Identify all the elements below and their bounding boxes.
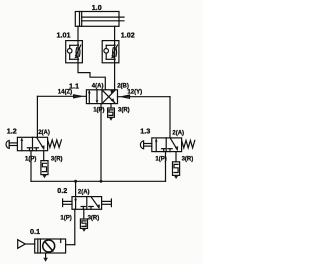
- svg-text:0.2: 0.2: [57, 186, 67, 195]
- svg-text:1(P): 1(P): [155, 156, 166, 162]
- svg-text:0.1: 0.1: [30, 227, 40, 236]
- svg-text:2(A): 2(A): [78, 190, 90, 196]
- svg-text:1(P): 1(P): [60, 216, 71, 222]
- svg-text:1(P): 1(P): [25, 157, 36, 163]
- svg-text:1.2: 1.2: [7, 126, 17, 135]
- svg-text:3(R): 3(R): [182, 156, 194, 162]
- svg-text:1(P): 1(P): [93, 107, 104, 113]
- svg-text:1.0: 1.0: [92, 3, 102, 12]
- svg-text:1.01: 1.01: [57, 31, 71, 40]
- svg-text:2(B): 2(B): [117, 84, 129, 90]
- svg-text:1.02: 1.02: [121, 31, 135, 40]
- svg-text:12(Y): 12(Y): [127, 89, 142, 95]
- svg-text:2(A): 2(A): [38, 130, 50, 136]
- svg-text:4(A): 4(A): [92, 84, 104, 90]
- svg-text:3(R): 3(R): [51, 157, 63, 163]
- svg-text:3(R): 3(R): [88, 216, 100, 222]
- svg-text:2(A): 2(A): [172, 131, 184, 137]
- svg-text:3(R): 3(R): [118, 107, 130, 113]
- svg-text:1.3: 1.3: [140, 126, 150, 135]
- svg-text:14(Z): 14(Z): [58, 90, 72, 96]
